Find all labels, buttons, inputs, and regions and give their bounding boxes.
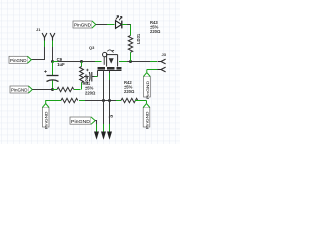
wire J3 pin2 to PinGND: [147, 69, 158, 71]
wire pin1 down: [44, 47, 46, 60]
svg-text:PinGND: PinGND: [145, 81, 150, 99]
svg-text:Q3: Q3: [89, 45, 95, 50]
svg-text:J5: J5: [109, 114, 114, 119]
wire top to LED: [96, 24, 107, 26]
wire bus right of Q3: [119, 61, 127, 63]
connector J5 pin 3 (arrow down): [107, 132, 112, 140]
PinGND label (bottom left, vertical): [42, 104, 49, 130]
pin lead J1-1 (green): [44, 41, 46, 48]
svg-text:PinGND: PinGND: [74, 23, 91, 28]
PinGND label (left mid, row1): [10, 86, 32, 93]
PinGND label (top): [73, 21, 96, 28]
Q3 baseline: [98, 70, 122, 72]
LED LD31: [116, 16, 123, 29]
wire shaft3 (from Q3 pad to arrow3): [109, 71, 111, 73]
resistor R40 (vertical at x=81): [80, 62, 84, 90]
wire pin2 down to bus: [52, 47, 54, 62]
transistor Q3 (MOSFET): [103, 50, 118, 67]
wire row1 right: [74, 89, 81, 91]
svg-text:PinGND: PinGND: [10, 58, 27, 63]
svg-text:1uF: 1uF: [57, 62, 65, 67]
svg-text:PinGND: PinGND: [145, 111, 150, 129]
C8 plus mark: [86, 69, 88, 71]
svg-text:J3: J3: [162, 52, 167, 57]
wire bus left section: [53, 61, 59, 63]
resistor R41 (horizontal): [57, 87, 74, 91]
resistor R43 (vertical): [128, 25, 132, 62]
svg-text:220Ω: 220Ω: [85, 90, 96, 95]
connector J5 pin 1 (arrow down): [94, 132, 99, 140]
svg-text:J1: J1: [36, 27, 41, 32]
resistor R42 (horizontal): [121, 98, 138, 102]
wire row2 middle: [79, 100, 85, 102]
node row1-C9 junction: [51, 88, 54, 91]
svg-text:220Ω: 220Ω: [124, 89, 135, 94]
svg-text:PinGND: PinGND: [71, 119, 90, 124]
connector J5 pin 2 (arrow down): [101, 132, 106, 140]
row2: left corner from PinGND: [45, 100, 47, 105]
capacitor C8 (horizontal branch y=76.5): [84, 71, 98, 82]
wire row1 to R41: [53, 89, 58, 91]
svg-text:220Ω: 220Ω: [150, 29, 161, 34]
wire PinGND to arrow1: [95, 120, 97, 122]
connector J3 pin 2 (fork left): [158, 67, 166, 72]
PinGND label (right mid, vertical): [144, 73, 151, 100]
node bus-C9 junction: [51, 60, 54, 63]
Q3 pads: [98, 67, 106, 70]
connector J1 pin 1 (fork up): [42, 33, 47, 41]
PinGND label (bottom right, vertical): [143, 104, 150, 130]
wire pin1 to PinGND label: [31, 59, 45, 61]
pin lead J1-2 (green): [52, 41, 54, 48]
node bus-R43 junction: [129, 60, 132, 63]
node bus-R40 junction: [80, 60, 83, 63]
wire R42 right to corner: [135, 100, 147, 102]
emission arrows: [116, 16, 119, 20]
wire LED to corner: [122, 24, 127, 26]
node row2-shaft3: [108, 99, 111, 102]
resistor R39 (horizontal row2 left): [61, 98, 78, 102]
connector J1 pin 2 (fork up): [50, 33, 55, 41]
wire shaft2 (from Q3 pad to arrow2): [103, 71, 105, 125]
connector J3 pin 1 (fork left): [158, 59, 166, 64]
svg-text:LD31: LD31: [136, 33, 141, 44]
svg-text:PinGND: PinGND: [44, 111, 49, 129]
node row2-shaft2: [102, 99, 105, 102]
PinGND label (left top): [9, 56, 31, 63]
svg-text:PinGND: PinGND: [11, 88, 28, 93]
PinGND label (bottom center): [70, 117, 95, 124]
wire row1 left: [32, 89, 52, 91]
capacitor C9 (polarized, vertical at x=52): [44, 62, 58, 90]
